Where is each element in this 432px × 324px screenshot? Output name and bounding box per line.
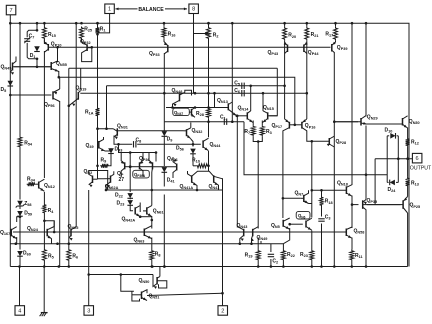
wire bbox=[311, 261, 313, 267]
wire bbox=[130, 205, 133, 211]
node bbox=[282, 197, 285, 200]
label Q_49 bbox=[86, 143, 94, 149]
wire bbox=[311, 190, 313, 217]
diode D1 bbox=[34, 46, 40, 51]
wire bbox=[59, 77, 295, 125]
wire bbox=[119, 130, 184, 132]
transistor Q_49 bbox=[99, 137, 111, 151]
wire bbox=[80, 92, 306, 94]
transistor Q_N51 bbox=[132, 290, 147, 301]
label Q_N25 bbox=[68, 224, 79, 230]
label R5 bbox=[48, 253, 54, 259]
wire bbox=[69, 67, 277, 69]
capacitor C2 bbox=[268, 254, 274, 256]
node bbox=[120, 273, 123, 276]
label Q_N49 bbox=[257, 235, 268, 241]
node bbox=[351, 203, 354, 206]
node bbox=[365, 265, 368, 268]
wire bbox=[321, 224, 323, 267]
wire bbox=[163, 53, 165, 122]
label R9 bbox=[101, 157, 107, 163]
wire bbox=[284, 43, 286, 86]
wire bbox=[192, 171, 214, 176]
wire bbox=[208, 40, 210, 107]
label Q_P32 bbox=[80, 39, 91, 45]
diode D5 bbox=[8, 81, 14, 86]
node bbox=[320, 189, 323, 192]
transistor Q_P56 bbox=[53, 89, 60, 102]
wire bbox=[139, 206, 141, 212]
label Q_N12 bbox=[44, 183, 55, 189]
wire bbox=[407, 213, 409, 267]
resistor R10 bbox=[196, 164, 208, 168]
wire bbox=[192, 154, 194, 166]
wire bbox=[282, 131, 284, 199]
transistor Q_N43 bbox=[237, 227, 244, 244]
terminal 4 bbox=[15, 306, 25, 316]
wire bbox=[68, 68, 70, 248]
transistor Q_N12 bbox=[36, 179, 45, 191]
resistor R5 bbox=[42, 249, 46, 262]
wire bbox=[9, 15, 11, 267]
transistor Q_N7 bbox=[301, 190, 309, 203]
label R19 bbox=[245, 252, 253, 258]
wire bbox=[137, 143, 201, 145]
wire bbox=[80, 68, 82, 89]
label Q_N61 bbox=[153, 209, 164, 215]
label C7 bbox=[29, 33, 35, 39]
transistor Q_N41A bbox=[188, 171, 198, 190]
wire bbox=[97, 34, 99, 107]
label Q_167 bbox=[0, 230, 10, 236]
wire bbox=[306, 43, 308, 93]
node bbox=[257, 140, 260, 143]
wire bbox=[19, 207, 21, 210]
wire bbox=[231, 23, 233, 122]
wire bbox=[375, 158, 412, 160]
wire bbox=[351, 196, 353, 229]
transistor Q_P28 bbox=[327, 136, 335, 147]
label R2 bbox=[213, 32, 219, 38]
label Q_N5 bbox=[271, 223, 280, 229]
wire bbox=[43, 192, 45, 204]
label Q_P10 bbox=[51, 41, 62, 47]
label Q_N58 bbox=[354, 229, 365, 235]
label Q_N19 bbox=[76, 85, 87, 91]
wire bbox=[262, 93, 264, 111]
resistor R1 bbox=[96, 27, 100, 35]
transistor Q_N29 bbox=[334, 116, 402, 126]
resistor R4 bbox=[42, 204, 46, 215]
label C6 bbox=[234, 88, 240, 94]
node bbox=[15, 242, 253, 245]
wire bbox=[59, 101, 61, 267]
diode D24 bbox=[390, 180, 395, 186]
ground bbox=[40, 313, 48, 317]
node bbox=[231, 22, 234, 123]
capacitor C3 bbox=[318, 219, 324, 221]
wire bbox=[97, 23, 99, 26]
node bbox=[151, 265, 166, 268]
wire bbox=[121, 275, 134, 292]
wire bbox=[48, 46, 330, 48]
wire bbox=[321, 190, 323, 196]
diode D56 bbox=[190, 149, 196, 154]
label R3 bbox=[266, 129, 272, 135]
wire bbox=[43, 262, 45, 267]
node bbox=[129, 151, 157, 168]
wire bbox=[97, 117, 99, 166]
node bbox=[257, 265, 260, 268]
resistor R34 bbox=[27, 182, 36, 186]
transistor Q_N18 bbox=[346, 185, 352, 197]
transistor Q_N48 bbox=[173, 90, 192, 107]
resistor R54 bbox=[18, 136, 22, 148]
resistor R28 bbox=[207, 108, 211, 119]
wire bbox=[151, 172, 153, 190]
label Q_N30 bbox=[409, 119, 420, 125]
node bbox=[36, 29, 39, 60]
wire bbox=[147, 293, 223, 295]
node bbox=[311, 265, 314, 268]
label Q_N31 bbox=[117, 123, 128, 129]
node bbox=[19, 215, 22, 218]
label Q_N51 bbox=[149, 293, 160, 299]
resistor R21 bbox=[305, 27, 309, 41]
transistor Q_N15 bbox=[262, 111, 267, 123]
label Q_P26 bbox=[167, 156, 178, 162]
resistor R11 bbox=[350, 250, 354, 262]
node bbox=[311, 140, 314, 143]
node bbox=[96, 165, 99, 168]
label R34 bbox=[27, 176, 36, 182]
wire bbox=[282, 261, 284, 267]
label Q_P33 bbox=[149, 51, 160, 57]
node bbox=[18, 265, 70, 268]
wire bbox=[43, 51, 45, 178]
transistor Q_P27 bbox=[121, 153, 140, 178]
label Q_N29 bbox=[367, 114, 378, 120]
label Q_N24 bbox=[27, 226, 39, 232]
transistor Q_N45 bbox=[10, 57, 51, 75]
terminal 6 bbox=[412, 153, 422, 163]
node bbox=[139, 215, 142, 218]
transistor Q_N47 bbox=[189, 108, 195, 118]
label Q_P44 bbox=[308, 50, 320, 56]
label R54 bbox=[24, 141, 33, 147]
resistor R2 bbox=[207, 27, 211, 40]
label Q_N18 bbox=[337, 180, 348, 186]
wire bbox=[43, 40, 45, 45]
wire bbox=[140, 216, 152, 218]
label R4 bbox=[48, 208, 55, 214]
node bbox=[171, 106, 210, 109]
label Q_N45 bbox=[1, 64, 12, 70]
wire bbox=[244, 122, 387, 175]
wire bbox=[208, 151, 210, 171]
wire bbox=[351, 261, 353, 267]
label OUTPUT bbox=[410, 165, 432, 171]
resistor R23 bbox=[310, 250, 314, 262]
node bbox=[9, 22, 210, 25]
node bbox=[129, 165, 132, 168]
node bbox=[283, 22, 337, 25]
label D59 bbox=[24, 211, 32, 217]
label D5 bbox=[1, 87, 7, 93]
label Q_N44 bbox=[210, 142, 222, 148]
node bbox=[151, 219, 154, 222]
transistor Q_N30 bbox=[403, 116, 408, 128]
transistor Q_N31 bbox=[113, 128, 118, 139]
wire bbox=[282, 198, 284, 218]
label Q_N48 bbox=[172, 88, 183, 94]
transistor Q_N63 bbox=[144, 226, 152, 239]
transistor Q_N19 bbox=[69, 91, 81, 107]
wire bbox=[151, 238, 153, 250]
label Q_P25 bbox=[410, 203, 421, 209]
svg-text:4: 4 bbox=[18, 308, 21, 314]
resistor R1A bbox=[96, 107, 100, 117]
transistor Q_P10 bbox=[44, 40, 48, 53]
wire bbox=[374, 159, 376, 205]
node bbox=[96, 127, 99, 130]
label BALANCE bbox=[138, 7, 164, 13]
node bbox=[75, 22, 78, 25]
wire bbox=[98, 166, 105, 179]
transistor Q_P44 bbox=[304, 40, 308, 53]
node bbox=[333, 120, 336, 123]
node bbox=[36, 66, 39, 69]
transistor Q_P32 bbox=[82, 40, 92, 62]
wire bbox=[166, 107, 228, 109]
wire bbox=[386, 136, 388, 179]
label D10 bbox=[385, 128, 393, 134]
resistor R16 bbox=[162, 27, 166, 38]
wire bbox=[407, 159, 409, 177]
wire bbox=[257, 261, 259, 267]
wire bbox=[57, 47, 59, 62]
transistor Q_N61 bbox=[143, 206, 152, 217]
wire bbox=[283, 228, 289, 244]
wire bbox=[193, 165, 196, 167]
resistor R9 bbox=[100, 164, 109, 168]
transistor Q_N58 bbox=[346, 227, 352, 238]
wire bbox=[10, 266, 407, 268]
diode D10 bbox=[390, 133, 395, 139]
resistor R20 bbox=[283, 27, 287, 41]
label Q_N63 bbox=[134, 237, 145, 243]
svg-text:BALANCE: BALANCE bbox=[138, 7, 164, 13]
label C2 bbox=[272, 258, 278, 264]
wire bbox=[151, 190, 153, 206]
label Q_P28 bbox=[336, 139, 347, 145]
label R16 bbox=[168, 32, 176, 38]
wire bbox=[284, 86, 286, 119]
wire bbox=[19, 148, 21, 200]
wire bbox=[10, 94, 51, 96]
label R10 bbox=[192, 157, 200, 163]
wire bbox=[107, 85, 285, 87]
wire bbox=[19, 257, 21, 267]
transistor Q_N55 bbox=[51, 61, 59, 72]
transistor Q_N42A bbox=[135, 203, 140, 217]
label Q_P36A bbox=[133, 170, 150, 178]
wire bbox=[407, 147, 409, 159]
label D24 bbox=[388, 187, 397, 193]
svg-text:27: 27 bbox=[119, 177, 125, 183]
wire bbox=[311, 231, 313, 250]
resistor R6 bbox=[67, 249, 71, 262]
label Q_N14 bbox=[238, 106, 250, 112]
wire bbox=[365, 23, 367, 116]
diode D9 bbox=[162, 131, 168, 136]
wire bbox=[159, 267, 161, 277]
transistor Q_P26 bbox=[153, 157, 177, 178]
wire bbox=[129, 153, 131, 193]
node bbox=[270, 265, 273, 268]
wire bbox=[397, 135, 399, 137]
label R1 bbox=[100, 26, 106, 32]
label R8 bbox=[155, 251, 161, 257]
label R20 bbox=[288, 33, 296, 39]
wire bbox=[89, 274, 153, 276]
label R13 bbox=[411, 180, 419, 186]
wire bbox=[163, 195, 165, 267]
node bbox=[58, 76, 61, 79]
capacitor C8 bbox=[134, 141, 136, 147]
wire bbox=[163, 172, 165, 186]
label D22 bbox=[115, 193, 123, 199]
resistor R7 bbox=[251, 125, 255, 136]
wire bbox=[365, 210, 367, 267]
node bbox=[194, 92, 308, 95]
label Q_N55 bbox=[56, 61, 67, 67]
label Q_P16 bbox=[305, 123, 316, 129]
transistor Q_N50 bbox=[153, 275, 167, 289]
node bbox=[294, 124, 297, 127]
wire bbox=[257, 238, 259, 250]
transistor Q_P39 bbox=[332, 40, 336, 52]
wire bbox=[250, 86, 252, 111]
wire bbox=[397, 179, 399, 182]
wire bbox=[283, 197, 301, 199]
label R17 bbox=[325, 32, 333, 38]
wire bbox=[59, 77, 61, 89]
wire bbox=[193, 34, 195, 94]
label D60 bbox=[23, 251, 31, 257]
wire bbox=[367, 204, 401, 206]
transistor Q_N62A bbox=[105, 171, 114, 190]
wire bbox=[10, 243, 283, 245]
wire bbox=[396, 181, 398, 183]
wire bbox=[351, 238, 353, 250]
wire bbox=[208, 118, 210, 137]
label D9 bbox=[167, 137, 173, 143]
wire bbox=[19, 217, 21, 250]
label R22 bbox=[287, 252, 295, 258]
wire bbox=[306, 93, 308, 119]
transistor Q_P36 bbox=[140, 153, 144, 177]
wire bbox=[14, 66, 51, 68]
transistor Q_N32 bbox=[184, 128, 191, 139]
node bbox=[249, 85, 286, 88]
wire bbox=[270, 244, 272, 252]
wire bbox=[261, 121, 263, 126]
node bbox=[207, 120, 210, 123]
label Q_N13 bbox=[217, 98, 228, 104]
node bbox=[320, 265, 323, 268]
svg-text:OUTPUT: OUTPUT bbox=[410, 165, 432, 171]
label Q_N43 bbox=[237, 223, 248, 229]
terminal 1 bbox=[105, 4, 115, 14]
wire bbox=[58, 71, 60, 77]
node bbox=[56, 46, 59, 49]
wire bbox=[88, 275, 90, 306]
wire bbox=[43, 267, 45, 313]
wire bbox=[397, 136, 399, 179]
wire bbox=[260, 241, 262, 244]
wire bbox=[351, 23, 353, 185]
wire bbox=[270, 259, 272, 267]
label R28 bbox=[196, 111, 204, 117]
wire bbox=[253, 136, 262, 141]
wire bbox=[106, 86, 108, 129]
node bbox=[87, 273, 90, 276]
diode D59 bbox=[17, 211, 23, 216]
terminal 2 bbox=[218, 306, 228, 316]
wire bbox=[270, 68, 278, 116]
resistor R18 bbox=[320, 196, 324, 207]
label R23 bbox=[300, 252, 308, 258]
label Q_N15 bbox=[263, 105, 274, 111]
wire bbox=[43, 214, 45, 249]
label Q_N7 bbox=[295, 191, 304, 197]
wire bbox=[151, 216, 153, 229]
node bbox=[207, 165, 210, 168]
resistor R17 bbox=[334, 27, 338, 41]
transistor Q_P35 bbox=[363, 200, 401, 210]
wire bbox=[36, 23, 38, 29]
diode D60 bbox=[17, 251, 23, 256]
svg-text:2: 2 bbox=[221, 308, 224, 314]
wire bbox=[129, 198, 131, 199]
node bbox=[236, 115, 239, 118]
resistor R22 bbox=[281, 250, 285, 262]
resistor R19 bbox=[256, 250, 260, 262]
diode D23 bbox=[127, 200, 133, 205]
node bbox=[105, 127, 108, 130]
diode D41 bbox=[162, 167, 168, 172]
label R12 bbox=[411, 140, 419, 146]
wire bbox=[17, 217, 20, 222]
wire bbox=[114, 136, 132, 145]
wire bbox=[151, 261, 153, 267]
wire bbox=[163, 136, 165, 166]
wire bbox=[365, 126, 367, 200]
capacitor C5 bbox=[242, 83, 244, 89]
node bbox=[117, 143, 131, 154]
label D56 bbox=[176, 146, 184, 152]
node bbox=[397, 157, 409, 160]
capacitor C7 bbox=[24, 30, 37, 59]
label C1 bbox=[220, 114, 226, 120]
wire bbox=[222, 178, 224, 305]
transistor Q_P36b bbox=[140, 153, 153, 173]
transistor Q_N6 bbox=[306, 218, 312, 230]
node bbox=[151, 265, 154, 268]
node bbox=[96, 22, 99, 25]
wire bbox=[407, 187, 409, 197]
